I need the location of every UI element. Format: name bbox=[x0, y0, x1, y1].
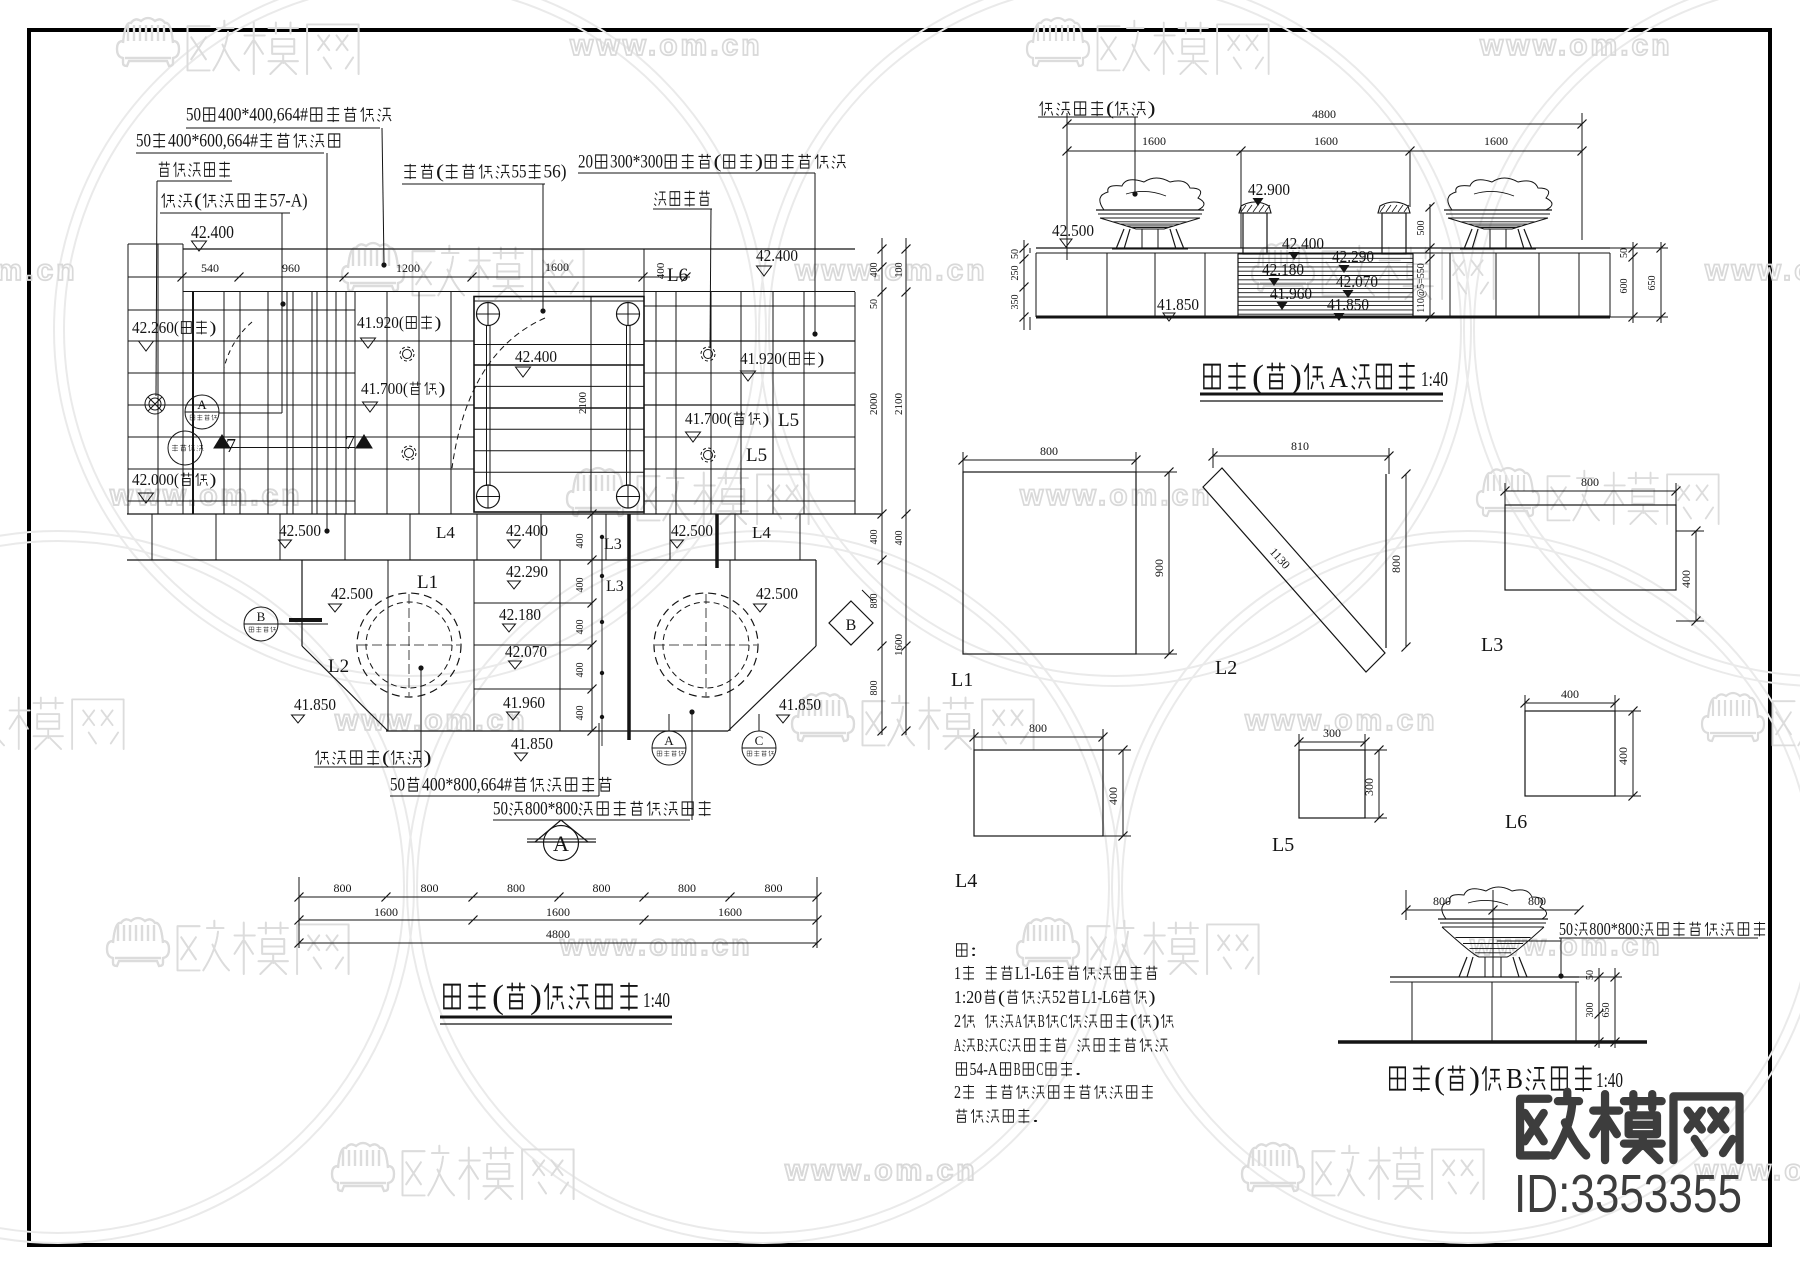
plan top dim row bbox=[128, 276, 690, 278]
svg-text:400: 400 bbox=[1561, 687, 1579, 701]
svg-text:400*600,664#: 400*600,664# bbox=[168, 131, 258, 152]
left pond horizontals bbox=[128, 309, 355, 311]
svg-text:(: ( bbox=[1252, 359, 1264, 396]
svg-text:50: 50 bbox=[390, 775, 405, 796]
elevA pillar right bbox=[1382, 213, 1406, 254]
plan bottom dim row 1600s bbox=[299, 919, 817, 921]
leader wire bbox=[814, 173, 816, 332]
svg-text:42.070: 42.070 bbox=[505, 642, 547, 661]
svg-text:L5: L5 bbox=[746, 445, 767, 466]
svg-text:www.om.cn: www.om.cn bbox=[334, 704, 528, 737]
elevA left dim col bbox=[1023, 240, 1025, 330]
elevB pedestal bbox=[1390, 976, 1579, 978]
notes line7 bbox=[956, 1109, 967, 1122]
svg-text:400: 400 bbox=[575, 620, 586, 635]
leader wire bbox=[710, 209, 711, 348]
svg-text:41.850: 41.850 bbox=[294, 695, 336, 714]
elevA title bbox=[1204, 365, 1220, 389]
svg-text:): ) bbox=[1469, 1060, 1480, 1096]
svg-text:50: 50 bbox=[1559, 919, 1573, 939]
svg-text:50: 50 bbox=[1619, 248, 1630, 258]
svg-text:400: 400 bbox=[894, 531, 905, 546]
planter circle right plan bbox=[654, 593, 758, 697]
svg-text:(: ( bbox=[1130, 1011, 1137, 1032]
svg-text:B: B bbox=[977, 1035, 984, 1055]
big watermark 欧模网 bbox=[1520, 1092, 1739, 1160]
svg-text:800: 800 bbox=[1581, 475, 1599, 489]
svg-text:400: 400 bbox=[575, 534, 586, 549]
svg-text:): ) bbox=[424, 748, 432, 769]
svg-text:800*800: 800*800 bbox=[525, 799, 578, 820]
svg-text:42.500: 42.500 bbox=[279, 521, 321, 540]
plan top boundary bbox=[128, 243, 183, 245]
svg-text:www.om.cn: www.om.cn bbox=[784, 1154, 978, 1187]
svg-text:.: . bbox=[1032, 1106, 1039, 1126]
svg-text:1: 1 bbox=[954, 963, 961, 983]
svg-text:): ) bbox=[755, 152, 763, 173]
plan bottom dim row 800s bbox=[299, 896, 817, 898]
svg-text:C: C bbox=[999, 1035, 1006, 1055]
svg-text:A: A bbox=[1329, 361, 1348, 394]
svg-text:(: ( bbox=[436, 162, 444, 183]
svg-text:www.om.cn: www.om.cn bbox=[569, 29, 763, 62]
svg-text:C: C bbox=[1036, 1059, 1043, 1079]
svg-text:L4: L4 bbox=[955, 870, 977, 892]
svg-text:42.400: 42.400 bbox=[515, 347, 557, 366]
elevA planter left bbox=[1100, 178, 1204, 210]
svg-text:100: 100 bbox=[894, 263, 905, 278]
svg-text:(: ( bbox=[998, 987, 1005, 1008]
svg-text:1:20: 1:20 bbox=[954, 987, 982, 1007]
svg-text:800: 800 bbox=[869, 681, 880, 696]
svg-text:1600: 1600 bbox=[718, 905, 742, 919]
svg-text:800: 800 bbox=[1433, 894, 1451, 908]
waterfall bundle bbox=[192, 292, 194, 514]
svg-text:600: 600 bbox=[1619, 279, 1630, 294]
svg-text:56): 56) bbox=[544, 162, 567, 183]
label 旋转型喷头 bbox=[159, 162, 170, 177]
jet nozzles bbox=[400, 347, 414, 361]
svg-text:500: 500 bbox=[1416, 221, 1427, 236]
svg-text:2000: 2000 bbox=[868, 393, 880, 416]
svg-text:): ) bbox=[1148, 99, 1156, 120]
svg-text:B: B bbox=[257, 609, 266, 624]
svg-text:(: ( bbox=[492, 979, 504, 1016]
svg-text:400: 400 bbox=[1106, 787, 1120, 805]
svg-text:): ) bbox=[817, 349, 824, 368]
svg-text:42.400: 42.400 bbox=[506, 521, 548, 540]
svg-text:800: 800 bbox=[507, 881, 525, 895]
svg-text:42.400: 42.400 bbox=[1282, 234, 1324, 253]
leader wire bbox=[382, 128, 384, 263]
label 木桥(环施55、56) bbox=[404, 164, 416, 179]
svg-text:): ) bbox=[1149, 987, 1156, 1008]
svg-text:400: 400 bbox=[575, 663, 586, 678]
svg-text:A: A bbox=[664, 733, 674, 748]
svg-text::: : bbox=[970, 940, 977, 960]
svg-text:41.850: 41.850 bbox=[1157, 295, 1199, 314]
bridge rails bbox=[486, 325, 488, 486]
callout B 环施54 left bbox=[244, 607, 278, 641]
elevA planter right bbox=[1448, 178, 1552, 210]
elevA right dim cols bbox=[1632, 242, 1634, 323]
svg-text:42.180: 42.180 bbox=[1262, 260, 1304, 279]
svg-text:400*800,664#: 400*800,664# bbox=[422, 775, 512, 796]
svg-text:1:40: 1:40 bbox=[1596, 1068, 1623, 1092]
dashed arcs bbox=[452, 318, 545, 468]
svg-text:41.920(: 41.920( bbox=[357, 313, 404, 332]
svg-text:350: 350 bbox=[1010, 295, 1021, 310]
svg-text:800: 800 bbox=[1389, 555, 1403, 573]
svg-text:41.850: 41.850 bbox=[1327, 295, 1369, 314]
svg-text:900: 900 bbox=[1152, 559, 1166, 577]
svg-text:50: 50 bbox=[136, 131, 151, 152]
svg-text:(: ( bbox=[194, 191, 202, 212]
svg-text:www.om.cn: www.om.cn bbox=[0, 254, 78, 287]
svg-text:800: 800 bbox=[1528, 894, 1546, 908]
svg-text:300: 300 bbox=[1585, 1003, 1596, 1018]
svg-text:41.850: 41.850 bbox=[779, 695, 821, 714]
leader wire bbox=[281, 213, 283, 413]
svg-text:810: 810 bbox=[1291, 439, 1309, 453]
svg-text:42.900: 42.900 bbox=[1248, 180, 1290, 199]
panel L5 bbox=[1299, 750, 1365, 818]
svg-text:2100: 2100 bbox=[893, 393, 905, 416]
terrace band bbox=[127, 513, 882, 515]
plan bottom dim row 4800 bbox=[299, 942, 817, 944]
panel L6 bbox=[1525, 711, 1615, 796]
svg-text:L4: L4 bbox=[436, 523, 455, 542]
svg-text:1600: 1600 bbox=[1142, 134, 1166, 148]
svg-text:): ) bbox=[762, 409, 769, 428]
svg-text:1600: 1600 bbox=[1484, 134, 1508, 148]
elevB right dims bbox=[1598, 968, 1600, 1048]
svg-text:L1: L1 bbox=[951, 669, 973, 691]
svg-text:1:40: 1:40 bbox=[643, 988, 670, 1012]
svg-text:42.500: 42.500 bbox=[1052, 221, 1094, 240]
svg-text:800: 800 bbox=[421, 881, 439, 895]
bridge grid line bbox=[590, 297, 592, 513]
svg-text:50: 50 bbox=[869, 299, 880, 309]
svg-text:): ) bbox=[1290, 359, 1302, 396]
right pond grid bbox=[655, 292, 657, 514]
plan title 踏步(二)处平面图 1:40 bbox=[444, 985, 460, 1009]
svg-text:800: 800 bbox=[765, 881, 783, 895]
elevA steps hatch bbox=[1238, 253, 1413, 255]
svg-text:800: 800 bbox=[1040, 444, 1058, 458]
callout C 环施54 bottom bbox=[742, 731, 776, 765]
svg-text:41.960: 41.960 bbox=[1270, 284, 1312, 303]
svg-text:L6: L6 bbox=[1505, 811, 1527, 833]
svg-text:1600: 1600 bbox=[545, 260, 569, 274]
callout 环施58 bbox=[168, 431, 202, 465]
elevA label 成品花钵(选样) bbox=[1040, 101, 1053, 116]
thick section line A bbox=[627, 514, 631, 740]
central steps rows bbox=[474, 602, 592, 604]
svg-text:41.700(: 41.700( bbox=[361, 379, 408, 398]
svg-text:800: 800 bbox=[593, 881, 611, 895]
svg-text:www.om.cn: www.om.cn bbox=[794, 254, 988, 287]
svg-text:50: 50 bbox=[493, 799, 508, 820]
planter circle left plan bbox=[357, 593, 461, 697]
elevA ground line bbox=[1036, 316, 1610, 319]
svg-text:1600: 1600 bbox=[893, 634, 905, 657]
svg-text:www.om.cn: www.om.cn bbox=[1019, 479, 1213, 512]
plan right dim column 1 bbox=[881, 238, 883, 735]
elevA wall coping bbox=[1036, 247, 1610, 249]
panel L2 strip bbox=[1203, 468, 1385, 672]
svg-text:800: 800 bbox=[1029, 721, 1047, 735]
svg-text:A: A bbox=[553, 831, 569, 856]
svg-text:(: ( bbox=[714, 152, 722, 173]
elevA pillar left bbox=[1243, 213, 1267, 254]
elevB dims 800 800 bbox=[1406, 909, 1579, 911]
fountain rotary jet bbox=[145, 394, 165, 414]
svg-text:): ) bbox=[530, 979, 542, 1016]
leader wire bbox=[156, 181, 157, 396]
svg-text:540: 540 bbox=[201, 261, 219, 275]
svg-text:42.000(: 42.000( bbox=[132, 470, 179, 489]
label 跌泉(环施57-A) bbox=[162, 193, 175, 208]
panel L4 bbox=[974, 750, 1103, 836]
bridge corner posts bbox=[477, 303, 500, 326]
svg-text:): ) bbox=[1153, 1011, 1160, 1032]
svg-text:A: A bbox=[1015, 1011, 1022, 1031]
svg-text:ID:3353355: ID:3353355 bbox=[1514, 1164, 1742, 1224]
leader wire bbox=[1497, 940, 1561, 942]
svg-text:52: 52 bbox=[1052, 987, 1066, 1007]
wood bridge bbox=[474, 297, 644, 513]
svg-text:300: 300 bbox=[1323, 726, 1341, 740]
leader wire bbox=[326, 153, 328, 529]
svg-text:400: 400 bbox=[575, 578, 586, 593]
svg-text:400: 400 bbox=[1616, 747, 1630, 765]
section marker B diamond bbox=[829, 601, 873, 645]
svg-text:L1-L6: L1-L6 bbox=[1082, 987, 1118, 1007]
L3 leader dots bbox=[601, 537, 603, 746]
svg-text:300*300: 300*300 bbox=[610, 152, 663, 173]
svg-text:1:40: 1:40 bbox=[1421, 367, 1448, 391]
svg-text:42.180: 42.180 bbox=[499, 605, 541, 624]
svg-text:A: A bbox=[197, 397, 207, 412]
svg-text:B: B bbox=[846, 617, 857, 634]
svg-text:1200: 1200 bbox=[396, 261, 420, 275]
svg-text:L2: L2 bbox=[1215, 657, 1237, 679]
svg-text:300: 300 bbox=[1362, 778, 1376, 796]
svg-text:L5: L5 bbox=[1272, 834, 1294, 856]
svg-text:650: 650 bbox=[1601, 1003, 1612, 1018]
svg-text:800: 800 bbox=[334, 881, 352, 895]
svg-text:L2: L2 bbox=[328, 656, 349, 677]
svg-text:41.920(: 41.920( bbox=[740, 349, 787, 368]
leader wire bbox=[542, 184, 544, 309]
elevA dim 1600x3 bbox=[1067, 150, 1582, 152]
elevA dim 4800 bbox=[1067, 123, 1582, 125]
svg-text:L1: L1 bbox=[417, 572, 438, 593]
svg-text:400*400,664#: 400*400,664# bbox=[218, 105, 308, 126]
panel L3 bbox=[1505, 505, 1676, 590]
svg-text:L1-L6: L1-L6 bbox=[1015, 963, 1051, 983]
elevB title bbox=[1390, 1067, 1406, 1089]
svg-text:L4: L4 bbox=[752, 523, 771, 542]
svg-text:41.700(: 41.700( bbox=[685, 409, 732, 428]
svg-text:.: . bbox=[1075, 1059, 1082, 1079]
svg-text:42.290: 42.290 bbox=[506, 562, 548, 581]
svg-text:42.290: 42.290 bbox=[1332, 247, 1374, 266]
svg-text:50: 50 bbox=[1585, 970, 1596, 980]
leader wire bbox=[1134, 117, 1136, 192]
svg-text:(: ( bbox=[382, 748, 390, 769]
svg-text:4800: 4800 bbox=[546, 927, 570, 941]
svg-text:2: 2 bbox=[954, 1082, 961, 1102]
svg-text:B: B bbox=[1014, 1059, 1021, 1079]
svg-text:42.500: 42.500 bbox=[331, 584, 373, 603]
section arrow A bottom bbox=[544, 826, 579, 861]
svg-text:800*800: 800*800 bbox=[1589, 919, 1639, 939]
svg-text:20: 20 bbox=[578, 152, 593, 173]
svg-text:50: 50 bbox=[186, 105, 201, 126]
svg-text:): ) bbox=[209, 470, 216, 489]
svg-text:(: ( bbox=[1106, 99, 1114, 120]
svg-text:B: B bbox=[1506, 1064, 1523, 1095]
svg-text:L3: L3 bbox=[604, 536, 622, 553]
svg-text:42.070: 42.070 bbox=[1336, 272, 1378, 291]
svg-text:960: 960 bbox=[282, 261, 300, 275]
svg-text:800: 800 bbox=[869, 594, 880, 609]
svg-text:400: 400 bbox=[655, 262, 667, 279]
plan band bottom bbox=[183, 291, 855, 293]
svg-text:C: C bbox=[755, 733, 764, 748]
svg-text:1600: 1600 bbox=[546, 905, 570, 919]
svg-text:57-A): 57-A) bbox=[270, 191, 308, 212]
svg-text:1600: 1600 bbox=[1314, 134, 1338, 148]
thick section line C bbox=[715, 514, 719, 568]
plan right dim column 2 bbox=[905, 238, 907, 735]
callout A 环施54 bottom bbox=[652, 731, 686, 765]
svg-text:L6: L6 bbox=[667, 265, 688, 286]
svg-text:42.500: 42.500 bbox=[756, 584, 798, 603]
svg-text:800: 800 bbox=[678, 881, 696, 895]
svg-text:650: 650 bbox=[1647, 276, 1658, 291]
svg-text:C: C bbox=[1060, 1011, 1067, 1031]
svg-text:L3: L3 bbox=[1481, 634, 1503, 656]
svg-text:400: 400 bbox=[575, 706, 586, 721]
callout A 环施57 bbox=[185, 395, 219, 429]
svg-text:250: 250 bbox=[1010, 266, 1021, 281]
notes 注: bbox=[956, 944, 967, 956]
mid pond grid bbox=[386, 292, 388, 514]
svg-text:54-A: 54-A bbox=[970, 1059, 999, 1079]
left pond verticals bbox=[127, 244, 129, 514]
svg-text:A: A bbox=[954, 1035, 961, 1055]
svg-text:(: ( bbox=[1434, 1060, 1445, 1096]
svg-text:www.om.cn: www.om.cn bbox=[1479, 29, 1673, 62]
svg-text:): ) bbox=[434, 313, 441, 332]
svg-text:7: 7 bbox=[345, 432, 355, 454]
svg-text:42.500: 42.500 bbox=[671, 521, 713, 540]
svg-text:50: 50 bbox=[1010, 249, 1021, 259]
svg-text:www.om.cn: www.om.cn bbox=[1704, 254, 1800, 287]
svg-text:L5: L5 bbox=[778, 410, 799, 431]
svg-text:2100: 2100 bbox=[577, 392, 589, 415]
elevB ground bbox=[1338, 1040, 1647, 1044]
svg-text:www.om.cn: www.om.cn bbox=[559, 929, 753, 962]
steps dim line 400s bbox=[591, 514, 593, 731]
svg-text:4800: 4800 bbox=[1312, 107, 1336, 121]
label 成品花钵(选样) plan bbox=[316, 750, 329, 765]
elevA mid dim col bbox=[1429, 204, 1431, 317]
svg-text:1600: 1600 bbox=[374, 905, 398, 919]
terrace inner verticals bbox=[387, 560, 389, 731]
panel L1 bbox=[963, 472, 1136, 654]
svg-text:B: B bbox=[1038, 1011, 1045, 1031]
svg-text:42.260(: 42.260( bbox=[132, 318, 179, 337]
elevB planter bbox=[1442, 887, 1547, 919]
svg-text:110@5=550: 110@5=550 bbox=[1416, 263, 1427, 312]
notes line5 bbox=[956, 1063, 966, 1075]
svg-text:41.960: 41.960 bbox=[503, 693, 545, 712]
svg-text:L3: L3 bbox=[606, 578, 624, 595]
svg-text:400: 400 bbox=[1679, 570, 1693, 588]
svg-text:400: 400 bbox=[869, 530, 880, 545]
elevA wall panels bbox=[1035, 253, 1037, 317]
svg-text:): ) bbox=[438, 379, 445, 398]
svg-text:41.850: 41.850 bbox=[511, 734, 553, 753]
lower terrace outline bbox=[301, 560, 303, 646]
label 涌泉喷头 bbox=[654, 192, 666, 206]
svg-text:42.400: 42.400 bbox=[191, 222, 234, 242]
svg-text:2: 2 bbox=[954, 1011, 961, 1031]
svg-text:55: 55 bbox=[512, 162, 527, 183]
svg-text:): ) bbox=[209, 318, 216, 337]
leader 成品花钵 plan bbox=[418, 665, 423, 670]
svg-text:42.400: 42.400 bbox=[756, 246, 798, 265]
svg-text:400: 400 bbox=[869, 263, 880, 278]
